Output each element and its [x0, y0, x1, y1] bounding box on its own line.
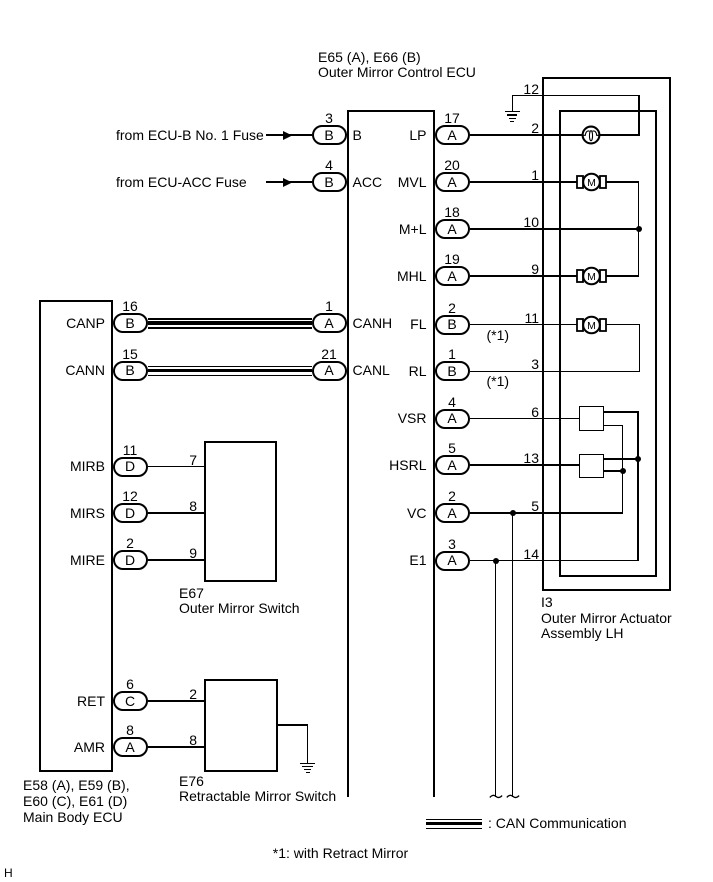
label (*1) RL — [487, 374, 510, 389]
wire: VSR out top — [603, 411, 639, 412]
wire: E76 to ground — [277, 724, 309, 725]
label: CAN Communication — [488, 816, 627, 831]
motor M3: mirror retract motor — [574, 310, 609, 340]
pin M+L 18/A — [435, 205, 470, 220]
pin AMR 8/A — [113, 723, 148, 738]
switch S1: E67 Outer Mirror Switch box — [204, 441, 277, 582]
pin E1 3/A — [435, 537, 470, 552]
pin MHL 19/A — [435, 252, 470, 267]
arrowhead fuse B — [283, 131, 293, 140]
wire: VC row — [470, 512, 624, 513]
pin FL 2/B — [435, 301, 470, 316]
wire: vertical MVL-MHL x638.5 — [638, 181, 639, 277]
wire: RL row — [470, 371, 641, 372]
wire: CAN bus CANP-CANH (thick CAN style) — [148, 318, 312, 319]
wire: vertical FL-RL x639.5 — [639, 324, 640, 372]
wire: VC drop x512.5 — [512, 512, 513, 797]
Main Body ECU internal labels — [0, 316, 105, 331]
ground G2 (E76) — [300, 763, 316, 764]
tilde break E1 drop — [488, 791, 504, 805]
motor M2: mirror horizontal motor — [574, 261, 609, 291]
wire: MVL row to motor — [470, 181, 578, 182]
wire: fuse B feed — [266, 134, 312, 135]
tilde break VC drop — [505, 791, 521, 805]
junction VC / drop wire — [510, 510, 516, 516]
label: from ECU-ACC Fuse — [116, 175, 247, 190]
wire: E1 drop x495.5 — [495, 560, 496, 797]
wire: VSR row to box — [470, 418, 581, 419]
label: E67 Outer Mirror Switch — [179, 586, 300, 617]
wire: vertical x638 VSR-E1 — [637, 411, 638, 561]
lamp L1: mirror heater indicator bulb — [576, 120, 606, 150]
label: footnote *1 — [273, 846, 408, 861]
pin CANH(1) on ECU left — [312, 299, 347, 314]
svg-text:M: M — [587, 271, 596, 283]
ECU internal labels right column — [350, 128, 427, 143]
wire: FL motor to vertical — [606, 324, 640, 325]
label: from ECU-B No. 1 Fuse — [116, 128, 264, 143]
wire: ground feed horizontal y95.6 — [513, 95, 640, 96]
label (*1) FL — [487, 328, 510, 343]
pin CANL(21) on ECU left — [312, 347, 347, 362]
pin VC 2/A — [435, 489, 470, 504]
junction HSRL top / x638 vertical — [635, 456, 641, 462]
label: page letter H — [4, 866, 13, 881]
component: VSR box (mirror surface sensor) — [579, 406, 604, 431]
wire: HSRL row to box — [470, 464, 581, 465]
pin VSR 4/A — [435, 395, 470, 410]
wire: MIRE to E67 pin9 — [148, 559, 205, 560]
pin HSRL 5/A — [435, 441, 470, 456]
pin RL 1/B — [435, 347, 470, 362]
wire: MIRS to E67 pin8 — [148, 512, 205, 513]
label: Outer Mirror Control ECU title — [318, 50, 476, 81]
wire: CAN bus CANN-CANL (thick CAN style) — [148, 366, 312, 367]
wire: bulb to right vertical — [600, 134, 640, 135]
wire: MHL row to motor — [470, 275, 578, 276]
pin RET 6/C — [113, 677, 148, 692]
ground G1 bars — [505, 111, 521, 112]
wire: HSRL out bottom — [603, 470, 623, 471]
ground G1 stem — [512, 95, 513, 112]
pin CANN 15/B — [113, 347, 148, 362]
label: E76 Retractable Mirror Switch — [179, 774, 336, 805]
junction HSRL bottom / x622.5 vertical — [620, 468, 626, 474]
arrowhead fuse ACC — [283, 178, 293, 187]
label: I3 Outer Mirror Actuator Assembly LH — [541, 595, 672, 642]
ECU U1: Outer Mirror Control ECU box (open bottom) — [347, 110, 435, 112]
pin LP 17/A on ECU right — [435, 111, 470, 126]
wire: vertical x622.5 VSR-VC — [622, 425, 623, 513]
wire: RET to E76 pin2 — [148, 700, 205, 701]
wire: AMR to E76 pin8 — [148, 746, 205, 747]
wire: HSRL out top — [603, 458, 639, 459]
wire: FL row to motor — [470, 324, 578, 325]
pin B(3) on ECU left — [312, 111, 347, 126]
connector I3 inner box — [559, 110, 657, 578]
connector I3: Outer Mirror Actuator Assembly LH outer box — [542, 77, 671, 591]
wire: VSR out bottom — [603, 425, 623, 426]
label: Main Body ECU — [23, 777, 130, 826]
wire: E1 row — [470, 560, 639, 561]
wire: MIRB to E67 pin7 — [148, 466, 205, 467]
pin MIRS 12/D — [113, 489, 148, 504]
wire: MHL motor to vertical — [606, 275, 640, 276]
pin MIRE 2/D — [113, 536, 148, 551]
pin MIRB 11/D — [113, 443, 148, 458]
svg-text:M: M — [587, 177, 596, 189]
wire: M+L row — [470, 228, 639, 229]
switch S2: E76 Retractable Mirror Switch box — [204, 679, 278, 773]
pin CANP 16/B on Main Body ECU — [113, 299, 148, 314]
ECU internal labels left column — [353, 128, 362, 143]
wire: MVL motor to vertical — [606, 181, 640, 182]
motor M1: mirror vertical motor — [574, 167, 609, 197]
junction M+L / motor link — [636, 226, 642, 232]
component: HSRL box (mirror heater) — [579, 454, 604, 478]
junction E1 / drop wire — [493, 558, 499, 564]
wire: LP row to bulb — [470, 134, 584, 135]
pin MVL 20/A — [435, 158, 470, 173]
svg-text:M: M — [587, 319, 596, 331]
wire: vertical bulb return x639 — [638, 95, 639, 135]
wire: fuse ACC feed — [266, 181, 312, 182]
pin ACC(4) on ECU left — [312, 158, 347, 173]
legend: CAN communication line sample — [426, 819, 483, 820]
ECU U2: Main Body ECU box — [39, 300, 113, 772]
